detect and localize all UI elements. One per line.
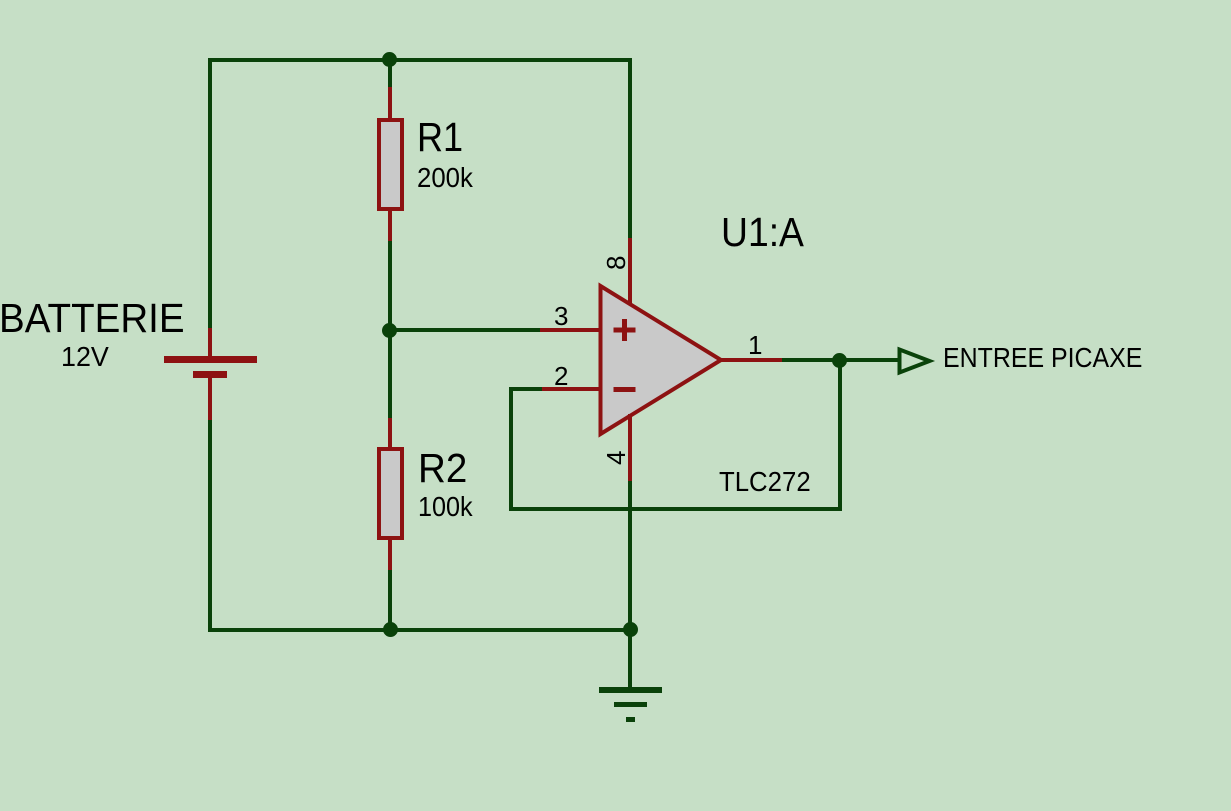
junction: bottom rail / R2: [383, 622, 398, 637]
battery BAT1 pin - (red): [208, 378, 212, 420]
label R2: [418, 448, 467, 489]
wire: output node down to feedback (green): [838, 360, 842, 511]
label R1: [417, 117, 463, 158]
junction: divider mid node: [382, 323, 397, 338]
wire: top rail from battery + to opamp V+ branch: [208, 58, 632, 62]
ground bar 1: [599, 687, 662, 693]
pin number 1: [748, 332, 762, 358]
label TLC272: [719, 468, 811, 496]
pin number 8 (rotated): [603, 256, 629, 270]
resistor R2 bottom pin (red): [388, 539, 392, 571]
resistor R1 top pin (red): [388, 87, 392, 119]
wire: divider vertical above R1: [388, 58, 392, 88]
wire: right vertical (V+ to opamp pin 8): [628, 58, 632, 238]
pin number 4 (rotated): [603, 451, 629, 465]
label ENTREE PICAXE: [943, 344, 1142, 372]
op-amp plus marker: [614, 328, 636, 333]
resistor R1 body: [377, 118, 404, 211]
wire: left vertical (battery top branch): [208, 58, 212, 328]
op-amp U1 pin 1 output (red): [721, 358, 782, 362]
ground stem: [628, 630, 632, 688]
junction: top rail / R1: [382, 52, 397, 67]
ground bar 2: [614, 702, 647, 707]
pin number 2: [554, 363, 568, 389]
resistor R2 body: [377, 447, 404, 540]
value 12V: [61, 343, 109, 371]
wire: feedback left vertical (green): [509, 387, 513, 511]
junction: output node: [832, 353, 847, 368]
junction: bottom rail / ground: [623, 622, 638, 637]
resistor R2 top pin (red): [388, 418, 392, 448]
op-amp U1 pin 8 (red): [628, 238, 632, 305]
wire: bottom rail (ground net): [208, 628, 632, 632]
wire: divider vertical between R1 and mid node: [388, 241, 392, 331]
wire: output to terminal (green): [782, 358, 898, 362]
wire: feedback bottom horizontal (green): [509, 507, 842, 511]
ground bar 3: [626, 717, 635, 722]
op-amp U1:A triangle: [601, 286, 722, 434]
wire: mid node to pin 3 (green): [388, 328, 540, 332]
battery BAT1 pin + (red): [208, 328, 212, 357]
op-amp minus marker: [614, 387, 636, 392]
pin number 3: [554, 303, 568, 329]
op-amp U1 pin 2 (red): [542, 387, 600, 391]
wire: pin 4 down to ground rail: [628, 481, 632, 632]
label U1:A: [721, 212, 804, 253]
wire: left vertical (battery bottom branch): [208, 420, 212, 632]
op-amp U1 pin 3 (red): [540, 328, 600, 332]
resistor R1 bottom pin (red): [388, 210, 392, 242]
value 100k: [418, 493, 473, 521]
label BATTERIE: [0, 298, 185, 339]
wire: feedback to pin 2 (green): [509, 387, 542, 391]
wire: divider vertical between mid node and R2: [388, 330, 392, 419]
wire: divider vertical below R2 to bottom rail: [388, 570, 392, 632]
battery BAT1 long plate (+): [164, 356, 257, 363]
value 200k: [417, 164, 473, 192]
op-amp U1 pin 4 (red): [628, 414, 632, 481]
battery BAT1 short plate (-): [193, 371, 227, 378]
